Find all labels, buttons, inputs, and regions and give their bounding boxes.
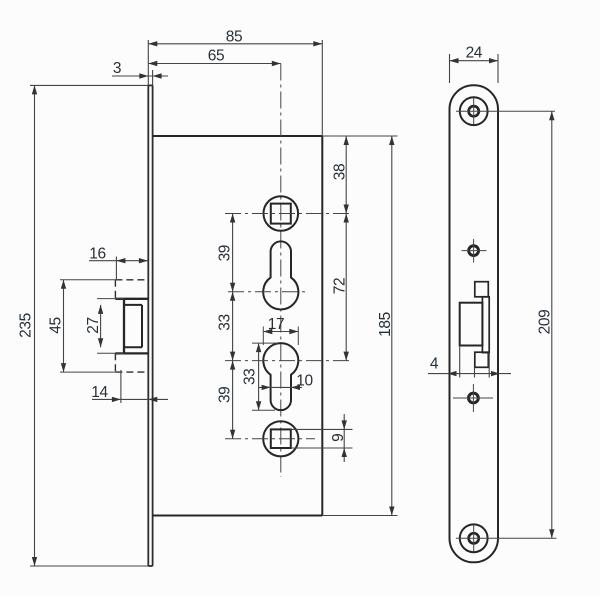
svg-text:10: 10 — [296, 372, 313, 389]
dim 38 (top edge to follower) — [332, 136, 349, 214]
upper small hole — [462, 239, 487, 263]
euro profile cylinder cutout (bulb up, stem down) — [263, 343, 298, 410]
top screw hole — [456, 97, 555, 125]
svg-text:3: 3 — [113, 60, 121, 77]
dim 39 lower (euro cylinder to bottom hub) — [217, 361, 236, 439]
faceplate side view (thin strip) — [148, 40, 152, 566]
extension lines of case top and bottom for right dims — [322, 135, 397, 137]
dim 27 (latch bolt height) — [85, 305, 103, 347]
extension lines for dim 9 — [291, 428, 353, 430]
follower horizontal centerline — [225, 213, 352, 215]
faceplate front view outline (stadium) — [450, 85, 499, 562]
latch guide (hidden, dashed) — [115, 280, 147, 372]
svg-text:45: 45 — [48, 317, 65, 333]
svg-text:16: 16 — [89, 245, 105, 262]
follower hub: circle with square spindle hole — [264, 196, 299, 231]
dim 45 (latch guide height) — [48, 280, 116, 372]
dim 72 (follower to euro cylinder) — [332, 214, 349, 361]
svg-text:65: 65 — [208, 48, 224, 65]
svg-text:185: 185 — [377, 312, 394, 337]
bottom hub horizontal centerline — [225, 438, 315, 440]
latch bolt head (protruding) — [115, 299, 148, 354]
dim 185 (case height) — [377, 136, 395, 516]
svg-text:72: 72 — [332, 278, 349, 294]
euro cylinder horizontal centerline — [225, 360, 352, 362]
dim 33 euro profile overall height — [242, 343, 279, 410]
lower small hole — [453, 384, 493, 412]
svg-text:235: 235 — [18, 313, 35, 338]
svg-text:209: 209 — [537, 310, 554, 335]
svg-text:33: 33 — [242, 369, 259, 385]
dim 24 (faceplate width) — [450, 45, 499, 83]
dim 3 (faceplate thickness) — [112, 60, 168, 79]
svg-text:9: 9 — [330, 434, 347, 442]
latch bolt tip face (inner rectangle) — [124, 305, 142, 347]
svg-text:17: 17 — [268, 316, 284, 333]
dim 17 (euro bulb width) — [263, 316, 298, 345]
dim 10 (euro stem width) — [259, 372, 313, 390]
svg-text:39: 39 — [217, 245, 234, 261]
dim 9 (bottom square height) — [330, 414, 347, 462]
latch opening: main aperture — [460, 303, 483, 346]
latch opening: bevel edge bar — [482, 297, 489, 353]
bottom fixing hub: circle with square hole — [263, 421, 298, 456]
svg-text:39: 39 — [217, 387, 234, 403]
svg-text:27: 27 — [85, 317, 102, 333]
latch head extension lines — [97, 298, 124, 300]
svg-text:14: 14 — [91, 384, 108, 401]
svg-text:33: 33 — [217, 314, 234, 330]
svg-text:24: 24 — [466, 45, 483, 62]
lock case body — [153, 136, 323, 516]
svg-text:85: 85 — [226, 29, 242, 46]
dim 14 (latch projection) — [91, 370, 168, 403]
dim 33 middle (keyhole to euro cylinder) — [217, 292, 236, 361]
bottom screw hole — [456, 524, 557, 552]
main vertical centerline — [280, 64, 282, 478]
latch opening: top tab — [475, 282, 489, 297]
svg-text:38: 38 — [332, 164, 349, 180]
svg-text:4: 4 — [430, 356, 439, 373]
dim 65 (backset) — [148, 48, 280, 66]
dim 39 upper (follower to keyhole) — [217, 214, 236, 292]
dim 85 (case depth from face) — [148, 29, 322, 136]
dim 4 (bevel offset) — [428, 356, 511, 377]
latch opening: bottom tab — [475, 352, 489, 367]
latch opening extension lines — [459, 346, 461, 378]
dim 235 (faceplate length) — [18, 85, 149, 566]
dim 16 (latch guide depth) — [89, 245, 148, 280]
upper keyhole cutout (stem up, bulb down) — [263, 241, 298, 309]
dim 209 (screw hole spacing) — [537, 111, 555, 538]
upper keyhole horizontal centerline — [228, 291, 307, 293]
